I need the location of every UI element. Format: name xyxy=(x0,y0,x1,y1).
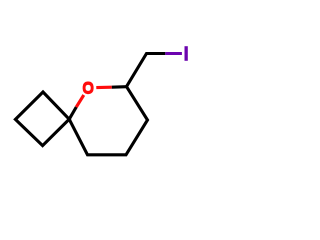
wire: O to C2, carbon half (black) xyxy=(112,85,127,89)
wire: C2 up to CH2 elbow and across (black) xyxy=(127,54,166,87)
wire: O to C2, oxygen half (red) xyxy=(96,86,112,90)
atom label I (iodine) xyxy=(185,46,188,61)
cyclobutane ring xyxy=(15,92,69,146)
wire: spiro C to O, carbon half (black) xyxy=(69,107,76,119)
wire: pyran ring carbons C2-C3-C4-C5 xyxy=(69,87,147,155)
wire: spiro C to O, oxygen half (red) xyxy=(76,95,84,107)
atom label O (oxygen) xyxy=(83,82,94,95)
wire: CH2 to I, iodine half (purple) xyxy=(165,52,182,55)
